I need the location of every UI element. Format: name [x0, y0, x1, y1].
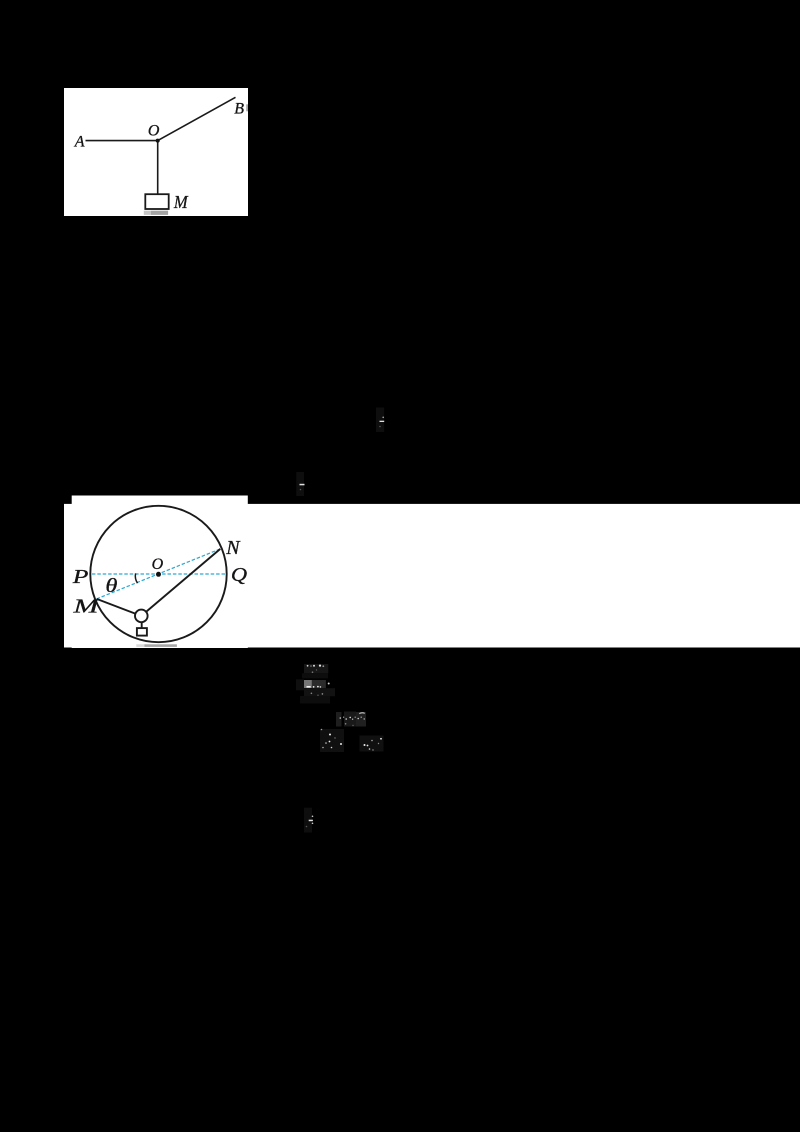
dashed chord MN through O: [97, 549, 221, 599]
figure 2: circle with chords panel: [64, 495, 800, 648]
wire string AO: [86, 140, 158, 142]
faint mark cluster b: [296, 679, 335, 703]
inner image white rect: [72, 496, 248, 649]
panel background: [64, 88, 248, 216]
weight square: [137, 628, 147, 636]
gray scan bar under circle: [136, 644, 144, 647]
faint fraction mark 3: [304, 808, 313, 833]
pulley circle: [135, 610, 148, 623]
gray scan bar under block: [144, 211, 151, 215]
faint mark cluster a: [302, 664, 328, 678]
string N to pulley: [141, 549, 220, 616]
dashed diameter PQ: [92, 573, 226, 575]
faint fraction mark 1: [376, 408, 384, 433]
gray scan mark right edge near B: [246, 104, 248, 111]
string M to pulley: [97, 599, 142, 616]
figure 1: pendulum on strings panel: [64, 88, 248, 216]
node O dot: [156, 139, 160, 143]
faint mark cluster c: [336, 712, 366, 727]
wire string O to mass: [157, 141, 159, 195]
big circle: [90, 506, 226, 642]
wire string OB: [158, 97, 236, 140]
wide white band: [64, 504, 800, 648]
angle arc at O: [135, 573, 137, 583]
faint mark cluster d: [320, 729, 384, 752]
link pulley to weight: [141, 622, 143, 628]
mass block M: [145, 194, 168, 209]
faint fraction mark 2: [296, 472, 304, 496]
center dot O: [156, 572, 161, 577]
